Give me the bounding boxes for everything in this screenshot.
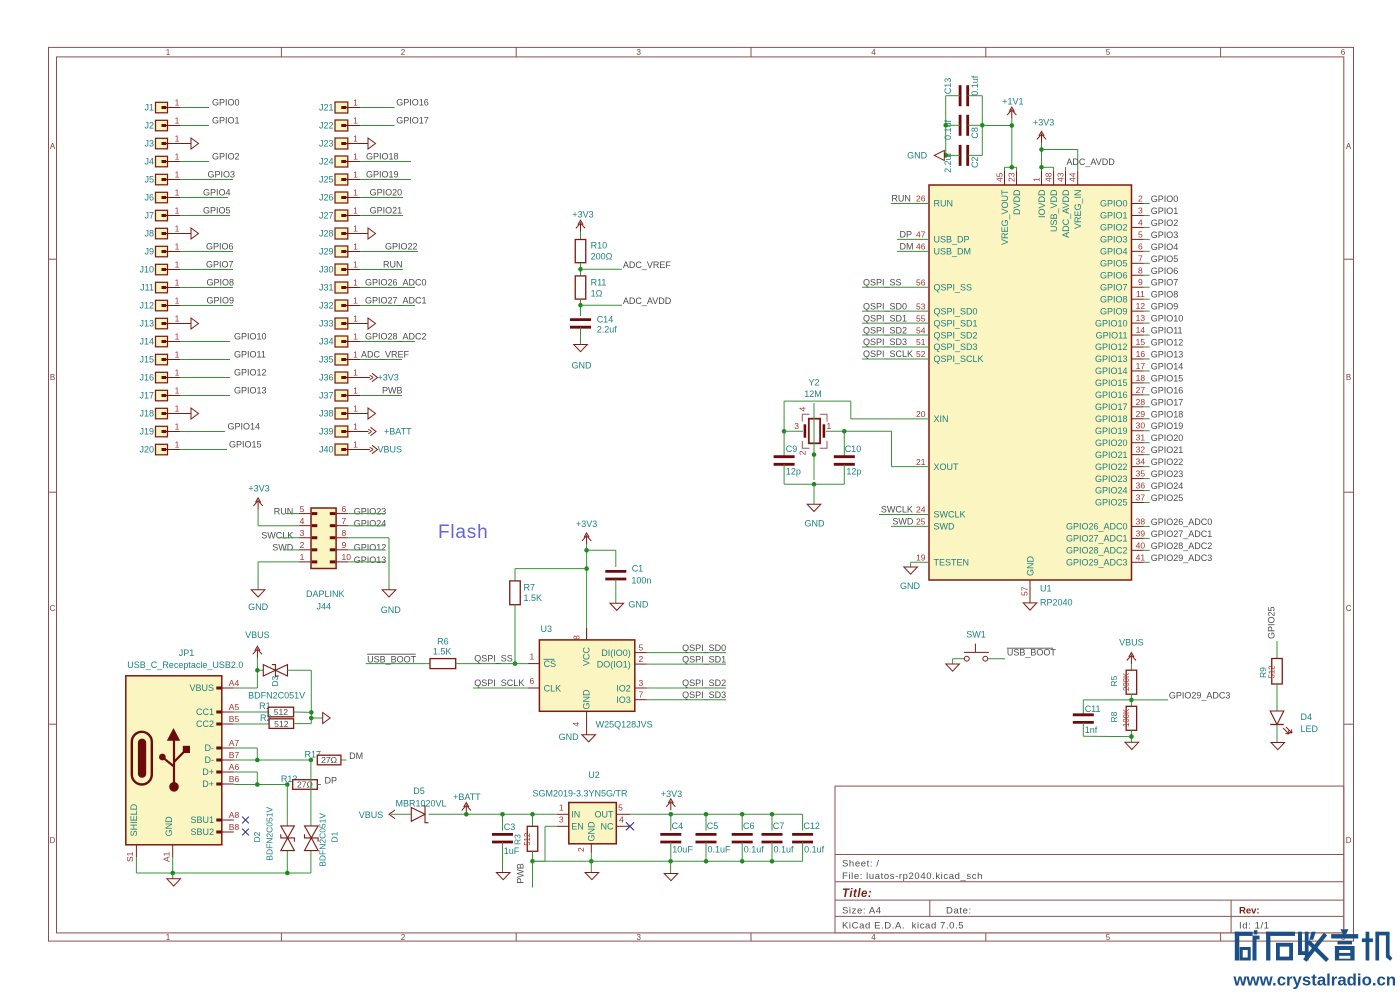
capacitor C7	[762, 814, 795, 861]
svg-text:DP: DP	[325, 776, 338, 786]
svg-text:File: luatos-rp2040.kicad_sch: File: luatos-rp2040.kicad_sch	[842, 871, 983, 882]
svg-text:12p: 12p	[786, 467, 801, 477]
svg-text:DM: DM	[349, 751, 363, 761]
svg-text:1: 1	[353, 223, 358, 233]
svg-text:55: 55	[916, 313, 926, 323]
svg-text:19: 19	[916, 553, 926, 563]
resistor R7	[510, 581, 542, 605]
no-connect U2 NC	[626, 822, 634, 830]
svg-text:ADC_AVDD: ADC_AVDD	[1061, 189, 1071, 238]
svg-text:GPIO29_ADC3: GPIO29_ADC3	[1066, 558, 1128, 568]
U3 pin 2 QSPI_SD1	[635, 654, 726, 664]
svg-text:1: 1	[530, 651, 535, 661]
svg-text:2.2uf: 2.2uf	[597, 324, 618, 334]
svg-text:5: 5	[1106, 933, 1111, 942]
svg-text:1: 1	[353, 367, 358, 377]
svg-text:45: 45	[994, 172, 1004, 182]
U1 pin 11 GPIO8	[1100, 289, 1178, 304]
svg-text:D2: D2	[252, 831, 262, 842]
svg-text:12: 12	[1136, 301, 1146, 311]
svg-text:1: 1	[353, 259, 358, 269]
TVS diode D3 BDFN2C051V	[248, 665, 305, 701]
U1 pin 17 GPIO14	[1095, 361, 1183, 376]
wire +3V3 to IOVDD USB_VDD VREG_IN	[1039, 143, 1078, 171]
svg-text:0.1uf: 0.1uf	[804, 844, 825, 854]
ground D4	[1271, 743, 1285, 750]
connector J12 net GPIO9	[139, 295, 234, 311]
U1 pin 12 GPIO9	[1100, 301, 1178, 316]
power VBUS (ADC divider)	[1119, 638, 1144, 665]
wire C1 to GND	[615, 579, 617, 603]
svg-text:GND: GND	[900, 581, 921, 591]
U1 pin 52 QSPI_SCLK	[862, 349, 984, 364]
capacitor C1	[605, 563, 651, 585]
svg-text:31: 31	[1136, 433, 1146, 443]
svg-text:GPIO14: GPIO14	[1095, 366, 1128, 376]
U1 pin 18 GPIO15	[1095, 373, 1183, 388]
wire J44 pin1 to GND	[258, 562, 299, 590]
U3 pin 6 CLK	[473, 676, 540, 688]
svg-text:7: 7	[1138, 253, 1143, 263]
svg-text:www.crystalradio.cn: www.crystalradio.cn	[1233, 971, 1397, 990]
label GPIO25 (LED)	[1267, 606, 1278, 658]
svg-text:GPIO2: GPIO2	[212, 152, 240, 162]
wire C4 to GND	[670, 861, 672, 873]
svg-text:1: 1	[166, 48, 171, 57]
wire VBUS to D5	[391, 813, 411, 815]
svg-text:GPIO26_ADC0: GPIO26_ADC0	[1066, 522, 1128, 532]
svg-text:GPIO12: GPIO12	[234, 368, 267, 378]
svg-text:VREG_IN: VREG_IN	[1073, 190, 1083, 230]
svg-text:3: 3	[1138, 205, 1143, 215]
U1 pin 31 GPIO20	[1095, 433, 1183, 448]
svg-text:J18: J18	[139, 409, 154, 419]
svg-text:J44: J44	[317, 601, 332, 611]
svg-text:J10: J10	[139, 265, 154, 275]
svg-text:+BATT: +BATT	[453, 792, 481, 802]
svg-text:0.1uf: 0.1uf	[943, 119, 953, 140]
wire SW1 to GND	[953, 659, 965, 664]
svg-text:GPIO14: GPIO14	[228, 422, 261, 432]
svg-text:D1: D1	[329, 831, 339, 842]
svg-text:GPIO22: GPIO22	[385, 242, 418, 252]
U3 pin 8 VCC stub	[572, 628, 587, 640]
svg-text:VBUS: VBUS	[1119, 638, 1144, 648]
connector J36 power +3V3	[319, 367, 399, 383]
svg-text:J6: J6	[144, 193, 154, 203]
svg-text:J28: J28	[319, 229, 334, 239]
svg-text:12p: 12p	[846, 467, 861, 477]
svg-text:1: 1	[175, 259, 180, 269]
svg-text:1: 1	[175, 277, 180, 287]
svg-text:GPIO5: GPIO5	[1100, 259, 1128, 269]
svg-text:C6: C6	[743, 821, 755, 831]
svg-text:1Ω: 1Ω	[591, 289, 603, 299]
svg-text:SWD: SWD	[934, 522, 955, 532]
svg-text:J22: J22	[319, 121, 334, 131]
wire R17 to DM	[341, 751, 363, 761]
svg-text:R10: R10	[591, 241, 608, 251]
title block	[835, 786, 1344, 933]
U1 pin 43 ADC_AVDD	[1055, 171, 1071, 238]
svg-text:2: 2	[401, 48, 406, 57]
svg-text:GPIO13: GPIO13	[234, 386, 267, 396]
svg-text:512: 512	[1268, 665, 1277, 678]
svg-text:SWCLK: SWCLK	[261, 531, 293, 541]
svg-text:D3: D3	[270, 675, 280, 686]
svg-text:R8: R8	[1109, 711, 1119, 722]
switch SW1 USB_BOOT	[964, 630, 989, 662]
svg-text:GPIO0: GPIO0	[1151, 194, 1179, 204]
svg-text:GND: GND	[1025, 556, 1035, 577]
svg-text:QSPI_SS: QSPI_SS	[474, 654, 513, 664]
svg-text:GPIO29_ADC3: GPIO29_ADC3	[1151, 553, 1213, 563]
U1 pin 13 GPIO10	[1095, 313, 1183, 328]
svg-text:J3: J3	[144, 139, 154, 149]
wire CC2 to R2	[234, 723, 269, 725]
svg-text:GPIO7: GPIO7	[1151, 278, 1179, 288]
svg-text:C3: C3	[504, 822, 516, 832]
svg-text:C7: C7	[773, 821, 785, 831]
capacitor C8	[943, 115, 980, 140]
J44 right labels GPIO23 GPIO24 GPIO12 GPIO13	[348, 506, 386, 564]
connector J21 net GPIO16	[319, 97, 429, 113]
power +1V1	[1002, 97, 1023, 119]
svg-text:C14: C14	[597, 314, 614, 324]
svg-text:J36: J36	[319, 373, 334, 383]
U1 pin 5 GPIO3	[1100, 229, 1178, 244]
U1 pin 21 XOUT	[916, 457, 959, 472]
svg-text:47: 47	[916, 230, 926, 240]
wire C14 to GND	[580, 327, 582, 344]
svg-text:QSPI_SD3: QSPI_SD3	[863, 337, 907, 347]
svg-text:GPIO10: GPIO10	[1095, 318, 1128, 328]
connector J32 net GPIO27_ADC1	[319, 295, 427, 311]
svg-text:VBUS: VBUS	[189, 683, 214, 693]
power +3V3 (regulator out)	[661, 789, 682, 810]
IC U1 RP2040 body	[929, 185, 1132, 580]
capacitor C14	[570, 314, 617, 334]
svg-text:1: 1	[353, 421, 358, 431]
svg-text:ADC_AVDD: ADC_AVDD	[623, 296, 672, 306]
connector J20 net GPIO15	[139, 439, 261, 455]
svg-text:3: 3	[559, 815, 564, 825]
connector J6 net GPIO4	[144, 187, 230, 203]
svg-text:51: 51	[916, 337, 926, 347]
svg-text:17: 17	[1136, 361, 1146, 371]
svg-text:52: 52	[916, 349, 926, 359]
wire VBUS to R5	[1130, 664, 1132, 670]
svg-text:25: 25	[916, 517, 926, 527]
svg-text:QSPI_SD1: QSPI_SD1	[934, 318, 978, 328]
svg-text:DI(IO0): DI(IO0)	[601, 648, 631, 658]
svg-text:NC: NC	[601, 822, 614, 832]
U1 pin 32 GPIO21	[1095, 445, 1183, 460]
svg-text:QSPI_SD1: QSPI_SD1	[682, 654, 726, 664]
svg-text:A: A	[1346, 142, 1352, 151]
svg-text:CC1: CC1	[196, 707, 214, 717]
connector J4 net GPIO2	[144, 151, 239, 167]
svg-text:GPIO7: GPIO7	[206, 260, 234, 270]
svg-text:1: 1	[353, 403, 358, 413]
svg-text:J15: J15	[139, 355, 154, 365]
svg-text:ADC_VREF: ADC_VREF	[361, 350, 410, 360]
svg-text:J37: J37	[319, 391, 334, 401]
svg-text:GND: GND	[164, 816, 174, 837]
U1 pin 9 GPIO7	[1100, 277, 1178, 292]
svg-text:J34: J34	[319, 337, 334, 347]
svg-text:A: A	[50, 142, 56, 151]
svg-text:24: 24	[916, 505, 926, 515]
svg-text:23: 23	[1006, 172, 1016, 182]
svg-text:9: 9	[1138, 277, 1143, 287]
svg-text:54: 54	[916, 325, 926, 335]
svg-text:48: 48	[1043, 172, 1053, 182]
svg-text:GPIO22: GPIO22	[1095, 462, 1128, 472]
no-connect SBU1	[242, 817, 249, 824]
U1 pin 34 GPIO22	[1095, 457, 1183, 472]
U1 pin 25 SWD	[891, 517, 955, 532]
svg-text:GPIO19: GPIO19	[1151, 421, 1184, 431]
svg-text:GPIO20: GPIO20	[370, 188, 403, 198]
capacitor C11	[1073, 704, 1101, 735]
svg-text:53: 53	[916, 301, 926, 311]
svg-text:+3V3: +3V3	[1033, 118, 1054, 128]
svg-text:GND: GND	[628, 600, 649, 610]
svg-text:XIN: XIN	[934, 414, 949, 424]
svg-text:GPIO26_ADC0: GPIO26_ADC0	[365, 278, 427, 288]
svg-text:10: 10	[342, 552, 352, 562]
svg-text:B5: B5	[229, 714, 240, 724]
wire XOUT net	[826, 429, 929, 467]
connector J38 (unconnected)	[319, 403, 376, 419]
svg-text:GND: GND	[381, 605, 402, 615]
wire D5 to U2 IN	[429, 812, 557, 817]
svg-text:Date:: Date:	[946, 905, 972, 916]
svg-text:J5: J5	[144, 175, 154, 185]
svg-text:GPIO28_ADC2: GPIO28_ADC2	[1151, 541, 1213, 551]
svg-text:GPIO1: GPIO1	[1100, 211, 1128, 221]
U1 pin 14 GPIO11	[1096, 325, 1183, 340]
connector J1 net GPIO0	[144, 97, 239, 113]
power +3V3 (IOVDD)	[1033, 118, 1054, 143]
svg-text:C1: C1	[632, 563, 644, 573]
U1 pin 7 GPIO5	[1100, 253, 1178, 268]
connector J33 (unconnected)	[319, 313, 376, 329]
svg-text:D+: D+	[202, 779, 214, 789]
svg-text:PWB: PWB	[516, 863, 526, 884]
svg-text:C10: C10	[845, 444, 862, 454]
U3 pin 1 CS stub	[528, 651, 540, 663]
U1 pin 48 USB_VDD	[1043, 171, 1059, 232]
svg-text:J29: J29	[319, 247, 334, 257]
connector J11 net GPIO8	[140, 277, 234, 293]
svg-text:VREG_VOUT: VREG_VOUT	[1000, 189, 1010, 245]
svg-text:1: 1	[175, 133, 180, 143]
svg-text:29: 29	[1136, 409, 1146, 419]
svg-text:B6: B6	[229, 774, 240, 784]
wire SW1 to USB_BOOT label	[988, 648, 1057, 659]
U1 pin 51 QSPI_SD3	[862, 337, 978, 352]
U1 pin 56 QSPI_SS	[862, 277, 972, 292]
svg-text:3: 3	[639, 678, 644, 688]
svg-text:GPIO6: GPIO6	[1151, 266, 1179, 276]
svg-text:USB_BOOT: USB_BOOT	[367, 654, 417, 664]
regulator U2 SGM2019-3.3YN5G/TR	[533, 770, 631, 853]
svg-text:A8: A8	[229, 810, 240, 820]
U1 pin 40 GPIO28_ADC2	[1066, 540, 1212, 555]
wire branch to R7	[515, 569, 587, 581]
svg-text:GPIO6: GPIO6	[206, 242, 234, 252]
svg-text:GPIO20: GPIO20	[1095, 438, 1128, 448]
svg-text:GND: GND	[581, 689, 591, 710]
svg-text:S1: S1	[125, 851, 135, 862]
svg-text:1: 1	[353, 151, 358, 161]
svg-text:C2: C2	[970, 156, 980, 168]
svg-text:1: 1	[175, 205, 180, 215]
svg-text:USB_DM: USB_DM	[934, 247, 972, 257]
U1 pin 41 GPIO29_ADC3	[1066, 552, 1212, 567]
U1 pin 20 XIN	[916, 409, 948, 424]
svg-text:J2: J2	[144, 121, 154, 131]
resistor R13	[281, 774, 317, 790]
U1 pin 2 GPIO0	[1100, 194, 1178, 209]
svg-text:GPIO1: GPIO1	[1151, 206, 1179, 216]
svg-text:30: 30	[1136, 421, 1146, 431]
USB logo	[132, 728, 190, 792]
U1 pin 37 GPIO25	[1095, 493, 1183, 508]
svg-text:GPIO17: GPIO17	[1095, 402, 1128, 412]
svg-text:CS: CS	[544, 659, 557, 669]
svg-text:D4: D4	[1301, 712, 1313, 722]
svg-text:1: 1	[559, 803, 564, 813]
TVS diode D1 BDFN2C051V	[305, 813, 340, 867]
svg-text:GPIO4: GPIO4	[1100, 247, 1128, 257]
svg-text:1uF: 1uF	[504, 846, 520, 856]
svg-text:+3V3: +3V3	[378, 373, 399, 383]
svg-text:GPIO5: GPIO5	[1151, 254, 1179, 264]
resistor R5	[1109, 670, 1137, 694]
connector J31 net GPIO26_ADC0	[319, 277, 427, 293]
ground SW1	[946, 664, 960, 671]
J44 left labels RUN SWCLK SWD	[261, 506, 299, 552]
svg-text:512: 512	[274, 707, 289, 717]
svg-text:J19: J19	[139, 427, 154, 437]
svg-text:GPIO8: GPIO8	[1151, 290, 1179, 300]
wire R13 to DP	[317, 776, 337, 786]
U1 pin 23 DVDD	[1006, 171, 1022, 215]
wire R8 C11 to GND	[1083, 722, 1133, 742]
svg-text:ADC_AVDD: ADC_AVDD	[1066, 157, 1115, 167]
svg-text:IO3: IO3	[616, 695, 631, 705]
svg-text:SGM2019-3.3YN5G/TR: SGM2019-3.3YN5G/TR	[533, 788, 629, 798]
svg-text:44: 44	[1068, 172, 1078, 182]
no-connect SBU2	[242, 829, 249, 836]
label ADC_AVDD (pin43)	[1066, 157, 1116, 171]
svg-text:W25Q128JVS: W25Q128JVS	[596, 719, 653, 729]
svg-text:46: 46	[916, 242, 926, 252]
wire XIN net	[782, 401, 929, 456]
svg-text:GPIO13: GPIO13	[354, 555, 387, 565]
svg-text:J7: J7	[144, 211, 154, 221]
svg-text:3: 3	[636, 48, 641, 57]
svg-text:J4: J4	[144, 157, 154, 167]
svg-text:GND: GND	[907, 151, 928, 161]
svg-text:GPIO23: GPIO23	[1151, 469, 1184, 479]
resistor R10	[575, 240, 612, 263]
svg-text:+3V3: +3V3	[248, 483, 269, 493]
wire R6 to U3 CS	[456, 654, 528, 664]
svg-text:GPIO28_ADC2: GPIO28_ADC2	[1066, 546, 1128, 556]
svg-text:VBUS: VBUS	[359, 810, 384, 820]
svg-text:DP: DP	[900, 230, 913, 240]
svg-text:DO(IO1): DO(IO1)	[597, 659, 631, 669]
svg-text:GPIO12: GPIO12	[1151, 338, 1184, 348]
svg-text:SWCLK: SWCLK	[934, 510, 966, 520]
svg-text:1: 1	[353, 277, 358, 287]
svg-text:38: 38	[1136, 516, 1146, 526]
svg-text:1: 1	[175, 439, 180, 449]
wire CC1 to R1	[234, 711, 268, 713]
svg-text:1.5K: 1.5K	[524, 593, 543, 603]
svg-text:QSPI_SD2: QSPI_SD2	[863, 325, 907, 335]
svg-text:J25: J25	[319, 175, 334, 185]
connector J10 net GPIO7	[139, 259, 233, 275]
svg-text:+1V1: +1V1	[1002, 97, 1023, 107]
svg-text:U2: U2	[588, 770, 600, 780]
svg-text:CC2: CC2	[196, 719, 214, 729]
svg-text:A5: A5	[229, 702, 240, 712]
svg-text:D+: D+	[202, 767, 214, 777]
svg-text:RUN: RUN	[274, 506, 294, 516]
svg-text:1nf: 1nf	[1085, 725, 1098, 735]
svg-text:DVDD: DVDD	[1012, 189, 1022, 215]
svg-text:CLK: CLK	[544, 684, 562, 694]
svg-text:SBU2: SBU2	[190, 827, 214, 837]
svg-text:2: 2	[576, 847, 586, 852]
svg-text:GPIO13: GPIO13	[1095, 354, 1128, 364]
U1 pin 35 GPIO23	[1095, 469, 1183, 484]
svg-text:RUN: RUN	[891, 194, 911, 204]
svg-text:GPIO18: GPIO18	[1095, 414, 1128, 424]
svg-text:GPIO4: GPIO4	[203, 188, 231, 198]
svg-text:U1: U1	[1040, 583, 1052, 593]
svg-text:DM: DM	[900, 242, 914, 252]
svg-text:C12: C12	[803, 821, 820, 831]
svg-text:C9: C9	[786, 444, 798, 454]
svg-text:27Ω: 27Ω	[321, 755, 338, 765]
svg-text:GPIO12: GPIO12	[1095, 342, 1128, 352]
wire +1V1 to DVDD	[982, 119, 1016, 171]
svg-text:R6: R6	[437, 636, 449, 646]
svg-text:J20: J20	[139, 445, 154, 455]
connector J39 power +BATT	[319, 421, 412, 437]
wire TESTEN to GND	[910, 562, 912, 567]
svg-text:J16: J16	[139, 373, 154, 383]
svg-text:41: 41	[1136, 552, 1146, 562]
resistor R9	[1258, 659, 1282, 685]
svg-text:GPIO29_ADC3: GPIO29_ADC3	[1169, 691, 1231, 701]
resistor R6	[430, 636, 456, 668]
svg-text:R11: R11	[591, 277, 607, 287]
svg-text:GPIO16: GPIO16	[396, 98, 429, 108]
U1 reference labels	[1040, 583, 1073, 607]
svg-text:4: 4	[571, 722, 581, 727]
svg-text:GPIO25: GPIO25	[1151, 493, 1184, 503]
wire R7 to QSPI_SS node	[513, 605, 518, 666]
connector J8 (unconnected)	[144, 223, 198, 239]
svg-text:20: 20	[916, 409, 926, 419]
